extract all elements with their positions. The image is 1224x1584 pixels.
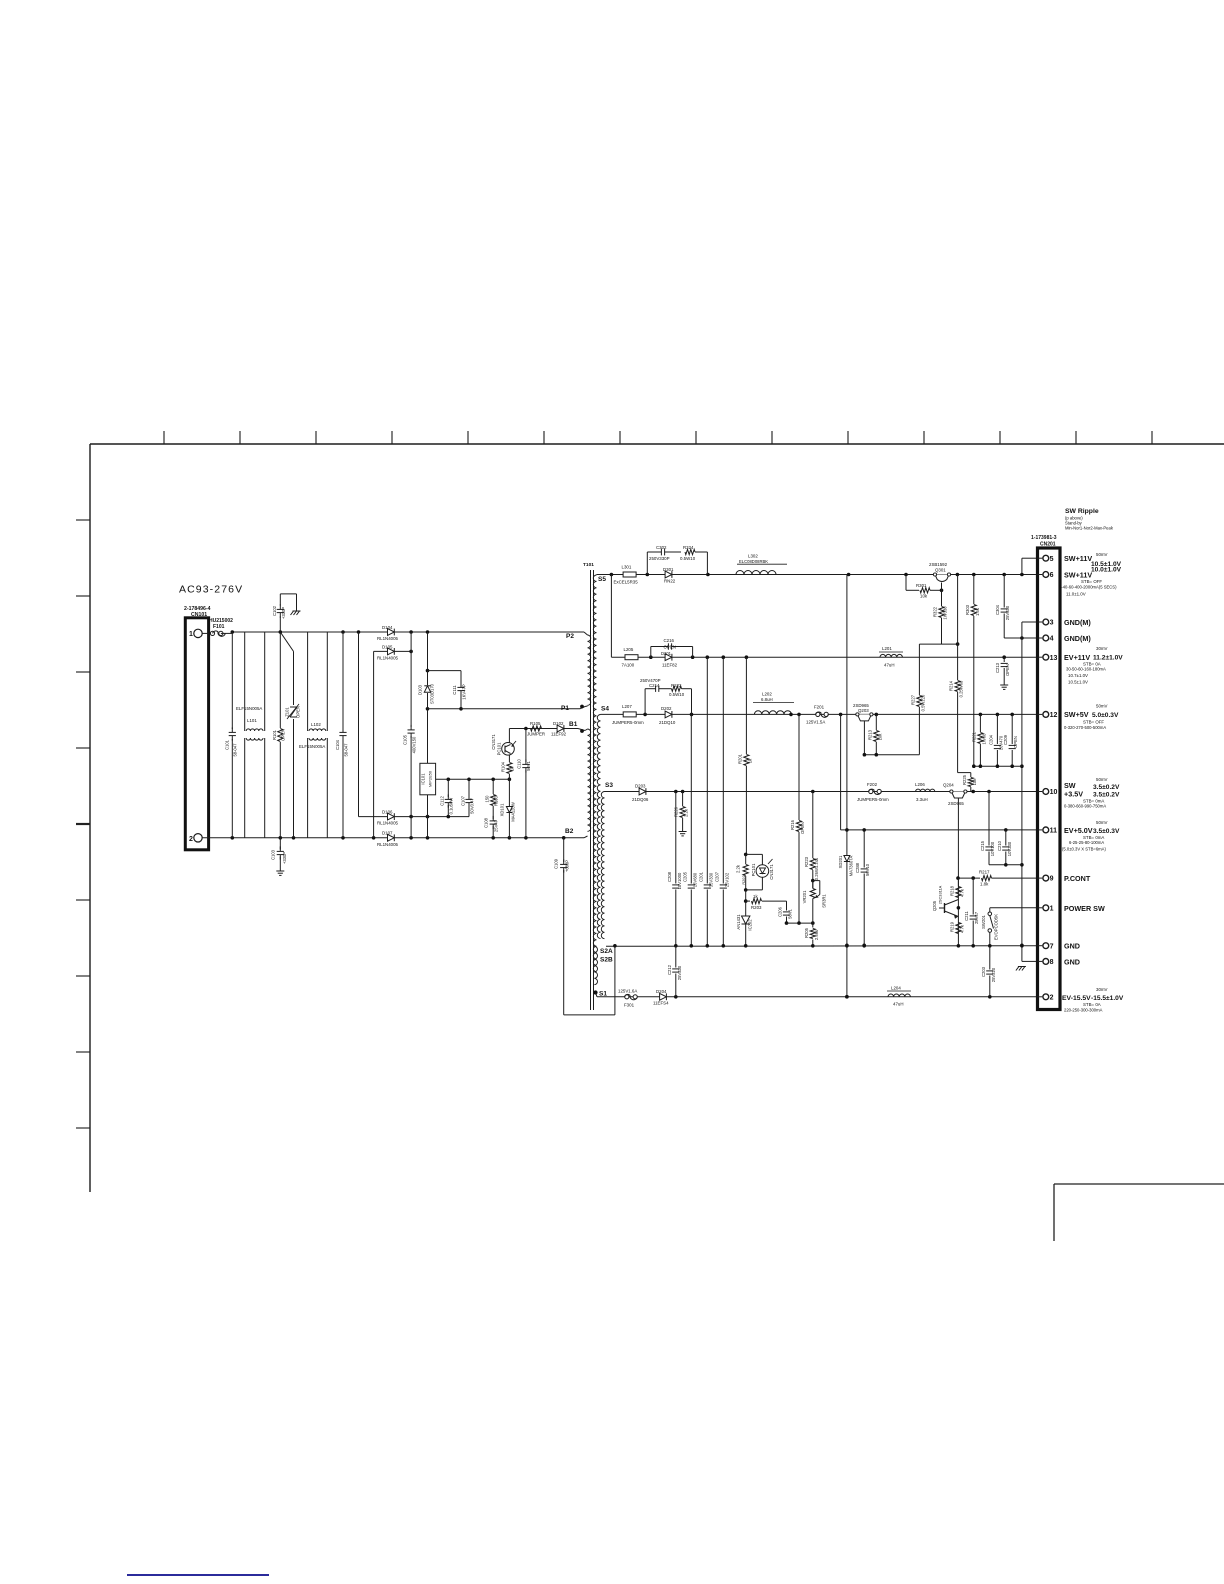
svg-text:R303: R303 bbox=[965, 604, 970, 615]
svg-text:+3.5V: +3.5V bbox=[1064, 790, 1083, 799]
svg-text:R227: R227 bbox=[910, 694, 915, 705]
pin 8 CN201 bbox=[1038, 959, 1054, 967]
transistor Q205 bbox=[932, 885, 960, 918]
wire EV-15.5V rail bbox=[597, 995, 1038, 999]
pin 6 CN201 bbox=[1038, 572, 1054, 580]
net label EV+11V pin13 bbox=[1064, 646, 1123, 685]
svg-text:B1: B1 bbox=[569, 721, 578, 728]
resistor R205 bbox=[804, 923, 819, 945]
svg-text:0.25W68: 0.25W68 bbox=[959, 680, 964, 697]
svg-text:Q205: Q205 bbox=[932, 900, 937, 911]
svg-text:OPEN: OPEN bbox=[664, 645, 676, 650]
svg-text:50mV: 50mV bbox=[1096, 704, 1108, 709]
wire pin5 jog bbox=[1022, 557, 1038, 559]
svg-text:RL1N4005: RL1N4005 bbox=[377, 842, 399, 847]
svg-text:4: 4 bbox=[1050, 636, 1054, 643]
svg-text:50mV: 50mV bbox=[1096, 820, 1108, 825]
svg-text:RN22: RN22 bbox=[664, 578, 676, 583]
capacitor C206 bbox=[778, 901, 793, 925]
pin 1 CN201 bbox=[1038, 905, 1054, 913]
svg-text:R213: R213 bbox=[867, 729, 872, 740]
svg-text:D102: D102 bbox=[553, 721, 564, 726]
svg-text:0.5W10: 0.5W10 bbox=[669, 692, 685, 697]
resistor R214 bbox=[949, 575, 964, 773]
pin 12 CN201 bbox=[1038, 712, 1058, 720]
diode D103 bbox=[418, 671, 435, 709]
svg-text:SW201: SW201 bbox=[981, 914, 986, 928]
inductor L302 bbox=[736, 554, 787, 575]
resistor R221 bbox=[971, 714, 986, 766]
svg-text:5.0±0.3V: 5.0±0.3V bbox=[1092, 712, 1119, 719]
svg-text:3.3uH: 3.3uH bbox=[916, 797, 928, 802]
svg-text:10.5±1.0V: 10.5±1.0V bbox=[1068, 680, 1088, 685]
svg-text:L207: L207 bbox=[622, 704, 632, 709]
svg-text:C288: C288 bbox=[855, 862, 860, 873]
svg-text:50V1: 50V1 bbox=[788, 908, 793, 918]
capacitor C304 bbox=[995, 575, 1010, 639]
svg-text:C210: C210 bbox=[997, 840, 1002, 851]
resistor R104 bbox=[501, 755, 515, 779]
svg-text:1: 1 bbox=[189, 631, 193, 638]
resistor R103 bbox=[485, 779, 499, 815]
capacitor C103 bbox=[271, 838, 288, 876]
node P1 bbox=[561, 705, 588, 712]
svg-text:58-047: 58-047 bbox=[233, 743, 238, 757]
svg-text:3.5±0.2V: 3.5±0.2V bbox=[1093, 784, 1120, 791]
svg-text:25V330: 25V330 bbox=[1005, 605, 1010, 620]
transistor Q204 bbox=[943, 783, 967, 946]
resistor R218 bbox=[957, 878, 959, 886]
svg-text:SW Ripple: SW Ripple bbox=[1065, 508, 1099, 515]
svg-text:2: 2 bbox=[1050, 994, 1054, 1001]
svg-text:50V0.47: 50V0.47 bbox=[470, 798, 475, 814]
svg-text:2.2k: 2.2k bbox=[736, 864, 741, 873]
svg-text:D202: D202 bbox=[661, 706, 672, 711]
svg-text:21DQ10: 21DQ10 bbox=[659, 720, 676, 725]
svg-text:10k: 10k bbox=[920, 594, 928, 599]
svg-text:C207: C207 bbox=[714, 871, 719, 882]
wire GND(M) net bbox=[1021, 622, 1023, 961]
capacitor C204 bbox=[988, 714, 1003, 766]
wire SW+5V rail bbox=[601, 713, 1038, 717]
svg-text:MA4120W: MA4120W bbox=[511, 802, 516, 822]
svg-text:ExCEL5R35: ExCEL5R35 bbox=[614, 580, 639, 585]
svg-text:Z101: Z101 bbox=[285, 707, 290, 717]
svg-text:0.5W10: 0.5W10 bbox=[680, 556, 696, 561]
connector CN101 bbox=[184, 606, 211, 850]
diode D201 bbox=[661, 651, 678, 667]
svg-text:D204: D204 bbox=[656, 989, 667, 994]
svg-text:C216: C216 bbox=[664, 638, 675, 643]
svg-text:D203: D203 bbox=[635, 784, 646, 789]
svg-text:50mV: 50mV bbox=[1096, 777, 1108, 782]
diode D105 bbox=[374, 645, 413, 661]
capacitor C109 bbox=[554, 838, 615, 1015]
svg-text:ST03D170: ST03D170 bbox=[430, 683, 435, 704]
pin 4 CN201 bbox=[1038, 635, 1054, 643]
resistor R105 bbox=[527, 721, 545, 737]
capacitor C112 bbox=[440, 779, 454, 816]
svg-text:2SD965: 2SD965 bbox=[948, 801, 964, 806]
diode D202 bbox=[659, 706, 676, 725]
capacitor C215 bbox=[980, 792, 995, 865]
svg-text:10k: 10k bbox=[972, 778, 977, 786]
svg-text:MIP2E50: MIP2E50 bbox=[428, 770, 433, 787]
svg-text:Q203: Q203 bbox=[858, 708, 869, 713]
net label SW+11V pin5 bbox=[1064, 552, 1122, 568]
capacitor C201 bbox=[698, 657, 713, 945]
svg-text:+330P: +330P bbox=[281, 607, 286, 619]
svg-text:XD201: XD201 bbox=[838, 855, 843, 868]
pin 11 CN201 bbox=[1038, 827, 1058, 835]
svg-text:GND(M): GND(M) bbox=[1064, 618, 1091, 627]
svg-text:IC101: IC101 bbox=[421, 773, 426, 785]
svg-text:EVOPCOD5K: EVOPCOD5K bbox=[994, 914, 999, 940]
svg-text:GND(M): GND(M) bbox=[1064, 634, 1091, 643]
svg-text:6.8uH: 6.8uH bbox=[761, 697, 773, 702]
svg-text:3.5±0.3V: 3.5±0.3V bbox=[1093, 828, 1120, 835]
svg-text:GND: GND bbox=[1064, 942, 1080, 951]
capacitor C108 bbox=[484, 815, 499, 838]
wire bottom AC rail bbox=[202, 836, 584, 840]
inductor L101 (common mode choke) bbox=[236, 632, 265, 838]
node SW Ripple note bbox=[1065, 508, 1114, 531]
wire top AC rail bbox=[231, 630, 585, 634]
resistor R101 bbox=[272, 632, 286, 838]
svg-text:JUMPER5-0mm: JUMPER5-0mm bbox=[857, 797, 889, 802]
svg-text:SR3R1: SR3R1 bbox=[821, 894, 826, 908]
diode D102 bbox=[551, 721, 567, 737]
diode D204 bbox=[653, 989, 669, 1006]
svg-text:L205: L205 bbox=[624, 647, 634, 652]
svg-text:EV-15.5V: EV-15.5V bbox=[1062, 995, 1091, 1002]
svg-text:L206: L206 bbox=[915, 782, 925, 787]
svg-text:MA7360TA: MA7360TA bbox=[848, 855, 853, 876]
capacitor C211 bbox=[964, 878, 979, 945]
svg-text:1.5k: 1.5k bbox=[975, 607, 980, 616]
svg-text:2.2k: 2.2k bbox=[684, 808, 689, 817]
capacitor C203 bbox=[981, 946, 996, 997]
wire IC101 source line bbox=[436, 778, 510, 780]
svg-text:AN1431: AN1431 bbox=[736, 914, 741, 930]
svg-text:AC93-276V: AC93-276V bbox=[179, 584, 243, 596]
svg-text:+680P: +680P bbox=[565, 860, 570, 872]
svg-text:C215: C215 bbox=[980, 840, 985, 851]
svg-text:OPEN: OPEN bbox=[1005, 664, 1010, 676]
svg-text:R223: R223 bbox=[804, 856, 809, 867]
svg-text:R324: R324 bbox=[683, 545, 694, 550]
svg-text:C304: C304 bbox=[995, 604, 1000, 615]
svg-text:R214: R214 bbox=[949, 680, 954, 691]
capacitor C104 bbox=[335, 632, 349, 838]
net label SW+11V pin6 bbox=[1059, 567, 1122, 597]
svg-text:T101: T101 bbox=[583, 562, 594, 568]
svg-text:C109: C109 bbox=[554, 858, 559, 869]
capacitor C210 bbox=[997, 830, 1012, 865]
svg-text:10k: 10k bbox=[877, 733, 882, 741]
capacitor C208 bbox=[667, 792, 682, 946]
svg-text:1-173981-3: 1-173981-3 bbox=[1031, 535, 1057, 541]
svg-text:11.0±1.0V: 11.0±1.0V bbox=[1066, 592, 1086, 597]
svg-text:L201: L201 bbox=[882, 646, 892, 651]
resistor R226 bbox=[674, 792, 689, 836]
svg-text:CN3171: CN3171 bbox=[769, 864, 774, 880]
svg-text:150: 150 bbox=[485, 795, 490, 803]
ground (C213) bbox=[1000, 684, 1008, 686]
svg-text:D104: D104 bbox=[382, 625, 393, 630]
node B2 bbox=[565, 828, 588, 838]
svg-text:B2: B2 bbox=[565, 828, 574, 835]
svg-text:STB= 0A: STB= 0A bbox=[1083, 1002, 1101, 1007]
IC U IC101 bbox=[420, 709, 436, 838]
svg-text:C213: C213 bbox=[995, 662, 1000, 673]
svg-text:L101: L101 bbox=[247, 718, 257, 723]
svg-text:C110: C110 bbox=[517, 758, 522, 768]
svg-text:400V150: 400V150 bbox=[412, 736, 417, 753]
pin 2 CN201 bbox=[1038, 994, 1054, 1002]
net label SW+3.5V pin10 bbox=[1064, 777, 1120, 809]
svg-text:R322: R322 bbox=[933, 606, 938, 617]
net label EV+5.0V pin11 bbox=[1062, 820, 1120, 852]
svg-text:7: 7 bbox=[1050, 943, 1054, 950]
svg-text:F301: F301 bbox=[624, 1003, 635, 1008]
svg-text:C112: C112 bbox=[440, 795, 445, 805]
svg-text:R217: R217 bbox=[979, 870, 990, 875]
capacitor C110 bbox=[517, 729, 532, 838]
svg-text:9: 9 bbox=[1050, 876, 1054, 883]
svg-text:21DQ06: 21DQ06 bbox=[632, 797, 649, 802]
svg-text:30mV: 30mV bbox=[1096, 646, 1108, 651]
svg-text:0-320-270-500-500mA: 0-320-270-500-500mA bbox=[1064, 725, 1106, 730]
wire pin4 line bbox=[1004, 637, 1037, 639]
svg-text:10V100: 10V100 bbox=[990, 841, 995, 856]
svg-text:F202: F202 bbox=[867, 782, 878, 787]
svg-text:R101: R101 bbox=[272, 729, 277, 740]
svg-text:0-40-60-400-2000mA(5 SECS): 0-40-60-400-2000mA(5 SECS) bbox=[1059, 585, 1117, 590]
inductor L102 bbox=[299, 632, 327, 838]
svg-text:-15.5±1.0V: -15.5±1.0V bbox=[1091, 995, 1124, 1002]
svg-text:P.CONT: P.CONT bbox=[1064, 874, 1091, 883]
capacitor C105 bbox=[403, 632, 417, 838]
svg-text:11EFS4: 11EFS4 bbox=[653, 1001, 669, 1006]
svg-text:STB= OFF: STB= OFF bbox=[1081, 579, 1102, 584]
resistor R301 bbox=[904, 573, 943, 599]
svg-text:R203: R203 bbox=[751, 905, 762, 910]
svg-text:10.7±1.0V: 10.7±1.0V bbox=[1068, 673, 1088, 678]
svg-text:S3: S3 bbox=[605, 782, 613, 789]
svg-text:0.5W220: 0.5W220 bbox=[920, 694, 925, 711]
svg-text:125V1.5A: 125V1.5A bbox=[806, 720, 825, 725]
svg-text:C214: C214 bbox=[649, 683, 660, 688]
svg-text:250V330P: 250V330P bbox=[649, 556, 670, 561]
transformer T101 bbox=[583, 562, 605, 1010]
resistor R219 bbox=[949, 921, 964, 933]
fuse F201 bbox=[806, 705, 828, 725]
shunt regulator IC202 bbox=[736, 890, 753, 945]
svg-text:50mV: 50mV bbox=[1096, 552, 1108, 557]
inductor L301 bbox=[614, 565, 639, 585]
svg-text:CN3171: CN3171 bbox=[491, 734, 496, 750]
connector CN201 bbox=[1031, 535, 1060, 1010]
svg-text:0.1u50W: 0.1u50W bbox=[449, 798, 454, 815]
footer link line bbox=[127, 1574, 269, 1576]
svg-text:OPEN: OPEN bbox=[800, 822, 805, 834]
svg-text:11EF82: 11EF82 bbox=[662, 663, 678, 668]
svg-text:ELC08D08RBK: ELC08D08RBK bbox=[739, 559, 768, 564]
svg-text:Q204: Q204 bbox=[943, 783, 954, 788]
pin 5 CN201 bbox=[1038, 555, 1054, 563]
capacitor C288 bbox=[855, 828, 870, 947]
capacitor C102 bbox=[272, 594, 301, 632]
svg-text:R105: R105 bbox=[530, 721, 541, 726]
svg-text:220-250-300-300mA: 220-250-300-300mA bbox=[1064, 1008, 1103, 1013]
svg-text:3.5±0.2V: 3.5±0.2V bbox=[1093, 792, 1120, 799]
capacitor C101 bbox=[225, 632, 238, 838]
wire feedback node bbox=[787, 922, 813, 924]
svg-text:C108: C108 bbox=[484, 817, 489, 828]
zener XD201 bbox=[838, 575, 854, 999]
transistor Q203 bbox=[853, 703, 873, 755]
svg-text:C104: C104 bbox=[335, 739, 340, 750]
svg-text:C102: C102 bbox=[272, 605, 277, 616]
svg-text:C208: C208 bbox=[667, 871, 672, 882]
svg-text:C107: C107 bbox=[461, 795, 466, 806]
fuse F101 bbox=[202, 618, 233, 636]
svg-text:125V1.6A: 125V1.6A bbox=[618, 989, 637, 994]
inductor L202 bbox=[753, 692, 794, 715]
wire pin8 stub bbox=[1022, 960, 1038, 962]
capacitor C209 (OPEN) bbox=[1003, 714, 1018, 766]
svg-text:6: 6 bbox=[1050, 572, 1054, 579]
optocoupler PC101 bbox=[491, 729, 516, 756]
svg-text:25V47: 25V47 bbox=[494, 819, 499, 832]
wire B1 feedback line bbox=[509, 728, 578, 730]
svg-text:P2: P2 bbox=[566, 633, 574, 640]
LED PC101 (diode side) bbox=[744, 854, 774, 891]
diode D106 bbox=[359, 810, 470, 826]
svg-text:L202: L202 bbox=[762, 692, 772, 697]
svg-text:10: 10 bbox=[1050, 789, 1058, 796]
wire SW+3.5V rail bbox=[605, 790, 1038, 794]
svg-text:R202: R202 bbox=[741, 875, 746, 884]
node S1 bbox=[593, 946, 607, 997]
svg-text:8: 8 bbox=[1050, 959, 1054, 966]
svg-text:11: 11 bbox=[1050, 828, 1058, 835]
chassis ground (pin8) bbox=[1018, 966, 1026, 968]
inductor L205 bbox=[622, 647, 639, 668]
svg-text:XD101: XD101 bbox=[500, 803, 505, 816]
svg-text:Min-Nor1-Nor2-Max-Peak: Min-Nor1-Nor2-Max-Peak bbox=[1065, 526, 1114, 531]
svg-text:1KV47P: 1KV47P bbox=[462, 684, 467, 700]
svg-text:50V1: 50V1 bbox=[526, 760, 531, 770]
svg-text:C101: C101 bbox=[225, 739, 230, 750]
svg-text:12: 12 bbox=[1050, 712, 1058, 719]
svg-text:25V102: 25V102 bbox=[724, 872, 729, 887]
svg-text:C211: C211 bbox=[964, 910, 969, 920]
svg-text:R226: R226 bbox=[674, 806, 679, 817]
capacitor C214 / resistor R222 snubber bbox=[640, 678, 692, 714]
svg-text:L302: L302 bbox=[748, 554, 758, 559]
title block corner bbox=[1054, 1183, 1224, 1185]
svg-text:R103: R103 bbox=[494, 795, 499, 806]
svg-text:25V330: 25V330 bbox=[677, 965, 682, 980]
inductor L207 bbox=[612, 704, 644, 725]
svg-text:C103: C103 bbox=[271, 849, 276, 860]
svg-text:OPEN: OPEN bbox=[1013, 736, 1018, 748]
resistor R322 bbox=[933, 583, 948, 645]
svg-text:PC101: PC101 bbox=[751, 863, 756, 876]
svg-text:25V47: 25V47 bbox=[974, 911, 979, 924]
svg-text:C209: C209 bbox=[1003, 734, 1008, 745]
svg-text:47uH: 47uH bbox=[893, 1002, 904, 1007]
diode D107 bbox=[377, 831, 399, 848]
svg-text:RL1N4005: RL1N4005 bbox=[377, 656, 399, 661]
wire P1 line bbox=[461, 708, 580, 710]
svg-text:SW+5V: SW+5V bbox=[1064, 710, 1089, 719]
svg-text:F201: F201 bbox=[814, 705, 825, 710]
svg-text:D107: D107 bbox=[382, 831, 393, 836]
svg-text:1k: 1k bbox=[753, 894, 758, 899]
wire EV+5 feed bbox=[840, 714, 842, 830]
resistor R202 bbox=[736, 853, 749, 890]
svg-text:S4: S4 bbox=[601, 706, 609, 713]
svg-text:PC101: PC101 bbox=[497, 742, 502, 755]
svg-text:30-50-60-160-180mA: 30-50-60-160-180mA bbox=[1066, 667, 1106, 672]
wire secondary GND rail bbox=[606, 944, 1038, 948]
svg-text:16V680: 16V680 bbox=[692, 872, 697, 887]
svg-text:56V10: 56V10 bbox=[865, 863, 870, 876]
resistor R223 bbox=[804, 792, 819, 889]
svg-text:ELF15N005A: ELF15N005A bbox=[236, 706, 262, 711]
svg-text:1W330: 1W330 bbox=[943, 606, 948, 620]
svg-text:S2B: S2B bbox=[600, 957, 613, 964]
wire bridge D105 leg bbox=[373, 651, 375, 837]
node B1 bbox=[569, 721, 588, 733]
svg-text:13: 13 bbox=[1050, 655, 1058, 662]
resistor R213 bbox=[867, 714, 882, 754]
svg-text:D106: D106 bbox=[382, 810, 393, 815]
resistor R227 bbox=[910, 644, 925, 755]
inductor L204 bbox=[887, 986, 911, 1007]
wire pin3 stub bbox=[1022, 621, 1038, 623]
capacitor C111 bbox=[428, 671, 467, 711]
svg-text:6-25-25-80-100mA: 6-25-25-80-100mA bbox=[1069, 840, 1104, 845]
svg-text:D201: D201 bbox=[661, 651, 672, 656]
svg-text:D105: D105 bbox=[382, 645, 393, 650]
svg-text:R216: R216 bbox=[790, 819, 795, 830]
svg-text:10V330: 10V330 bbox=[1007, 841, 1012, 856]
svg-text:1: 1 bbox=[1050, 905, 1054, 912]
svg-text:R205: R205 bbox=[804, 927, 809, 938]
diode D203 bbox=[632, 784, 649, 803]
fuse F301 bbox=[618, 989, 637, 1008]
capacitor C207 bbox=[714, 657, 729, 945]
svg-text:C201: C201 bbox=[698, 871, 703, 882]
svg-text:35V330: 35V330 bbox=[708, 872, 713, 887]
svg-text:D301: D301 bbox=[663, 567, 674, 572]
svg-text:7A100: 7A100 bbox=[622, 663, 635, 668]
capacitor C216 (OPEN) bbox=[651, 638, 693, 657]
svg-text:POWER SW: POWER SW bbox=[1064, 904, 1105, 913]
wire P.CONT line / resistor R217 bbox=[956, 870, 1037, 887]
svg-text:4.7k: 4.7k bbox=[959, 888, 964, 897]
ground (C103) bbox=[276, 870, 284, 872]
svg-text:SW+11V: SW+11V bbox=[1064, 554, 1092, 563]
capacitor C302 / resistor R324 snubber bbox=[647, 545, 707, 575]
svg-text:C204: C204 bbox=[988, 734, 993, 745]
svg-text:(5.0±0.3V X STB=6mA): (5.0±0.3V X STB=6mA) bbox=[1062, 847, 1106, 852]
svg-text:+330P: +330P bbox=[282, 852, 287, 864]
